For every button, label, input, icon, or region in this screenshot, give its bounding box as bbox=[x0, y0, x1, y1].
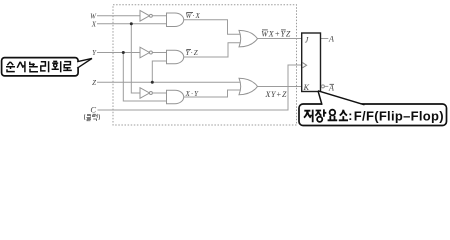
svg-text:A: A bbox=[328, 34, 334, 43]
svg-text:XY+Z: XY+Z bbox=[265, 90, 288, 99]
svg-text:J: J bbox=[305, 36, 309, 45]
svg-text:C: C bbox=[90, 104, 96, 114]
svg-text:X·Y: X·Y bbox=[185, 90, 200, 98]
svg-text:W·X: W·X bbox=[186, 12, 201, 20]
svg-text:Z: Z bbox=[92, 79, 96, 87]
svg-text:K: K bbox=[303, 83, 310, 92]
svg-text:X: X bbox=[91, 20, 97, 28]
svg-text::: : bbox=[348, 109, 352, 123]
svg-text:F/F(Flip–Flop): F/F(Flip–Flop) bbox=[354, 108, 444, 123]
svg-text:Y: Y bbox=[92, 49, 97, 57]
svg-text:Y·Z: Y·Z bbox=[186, 49, 199, 57]
svg-text:WX+YZ: WX+YZ bbox=[261, 30, 291, 39]
svg-text:W: W bbox=[90, 12, 97, 20]
